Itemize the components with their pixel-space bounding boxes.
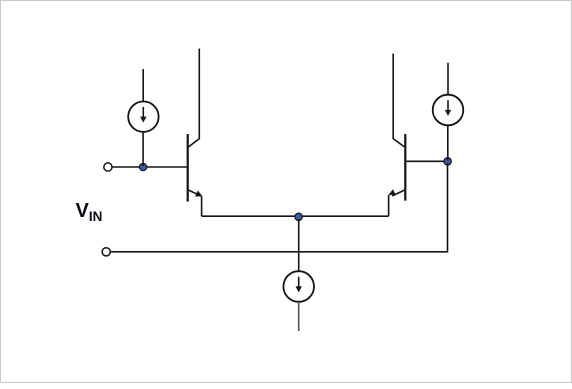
node C (Q2 base / I2 output) — [444, 158, 451, 165]
transistor Q2 (right NPN, mirrored) — [388, 54, 405, 217]
input terminal (bottom, -) — [102, 248, 110, 256]
transistor Q1 (left NPN) — [188, 49, 203, 217]
svg-text:VIN: VIN — [76, 200, 103, 224]
wire: top input terminal to Q1 base — [112, 166, 186, 168]
wire: bottom input to node C (via right corner) — [111, 163, 448, 252]
wire: stub below current source I3 — [298, 302, 300, 331]
wire: tail node down to current source I3 — [298, 219, 300, 271]
wire: stub above current source I2 — [447, 63, 449, 95]
wire: Q2 base to node C — [406, 160, 444, 162]
wire: I1 to node A — [142, 132, 144, 166]
current source I2 — [433, 95, 464, 126]
input terminal (top, +) — [104, 163, 112, 171]
wire: I2 to node C — [447, 125, 449, 160]
wire: emitter bus (Q1 emitter to Q2 emitter) — [202, 215, 389, 217]
node B (tail node) — [295, 213, 302, 220]
wire: stub above current source I1 — [142, 69, 144, 102]
node A (Q1 base / I1 output) — [139, 163, 146, 170]
current source I1 — [128, 102, 158, 132]
current source I3 (tail) — [283, 271, 314, 302]
